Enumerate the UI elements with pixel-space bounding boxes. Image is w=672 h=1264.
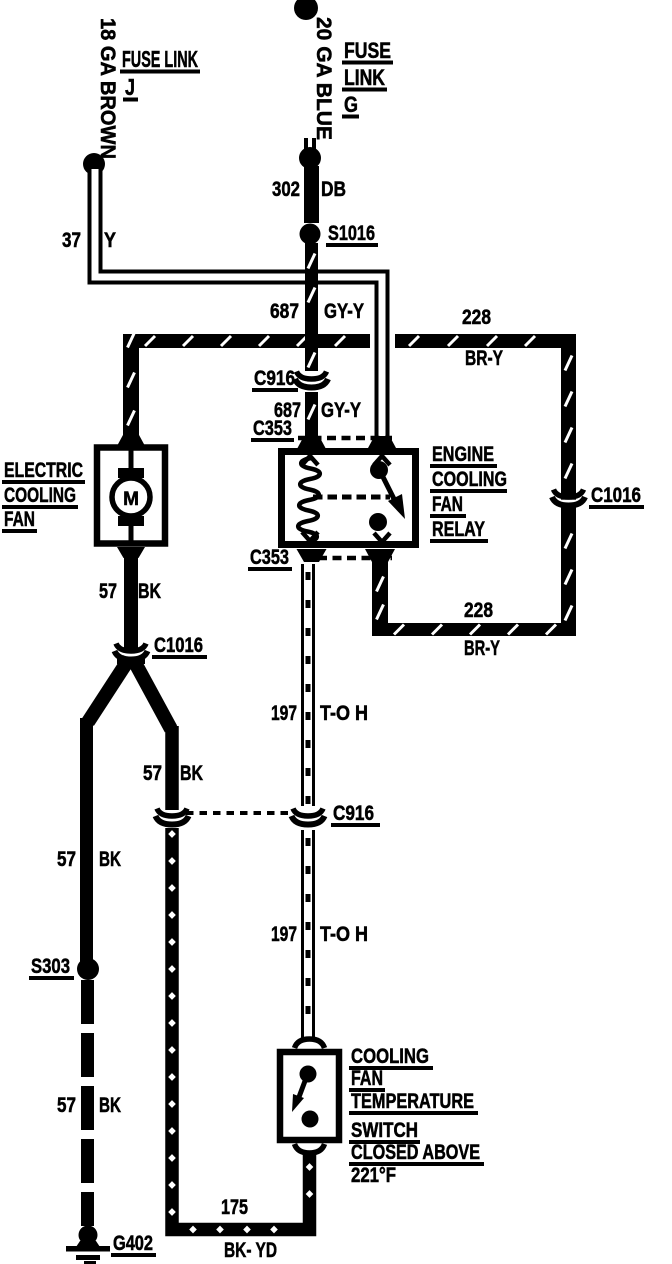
- svg-text:197: 197: [271, 702, 297, 725]
- relay switch contact (bottom): [369, 513, 387, 531]
- pin flare relay top-right (37-Y feed): [368, 436, 396, 448]
- svg-text:FUSE LINK: FUSE LINK: [122, 46, 198, 72]
- svg-text:FAN: FAN: [351, 1067, 383, 1090]
- svg-text:57: 57: [57, 1094, 76, 1117]
- svg-text:197: 197: [271, 923, 297, 946]
- svg-text:FAN: FAN: [432, 493, 463, 516]
- svg-text:COOLING: COOLING: [351, 1045, 429, 1068]
- splice dashed line C916 to 57 BK branch: [186, 811, 294, 815]
- relay pin arrow bottom-right: [374, 533, 390, 542]
- node dot between fuse link G and wire 302: [299, 147, 321, 169]
- svg-text:20 GA BLUE: 20 GA BLUE: [312, 17, 335, 140]
- svg-text:C1016: C1016: [591, 484, 641, 507]
- svg-text:T-O H: T-O H: [320, 923, 368, 946]
- svg-text:BR-Y: BR-Y: [464, 637, 500, 660]
- svg-text:M: M: [123, 489, 139, 510]
- svg-text:Y: Y: [104, 229, 116, 252]
- relay switch blade with arrow: [383, 477, 396, 503]
- svg-text:18 GA BROWN: 18 GA BROWN: [96, 18, 119, 159]
- svg-text:RELAY: RELAY: [432, 518, 485, 541]
- svg-text:S1016: S1016: [328, 222, 375, 245]
- wire 37 Y crossover over bus: [370, 331, 395, 351]
- svg-text:BK: BK: [99, 848, 121, 871]
- svg-text:COOLING: COOLING: [4, 484, 76, 507]
- svg-text:C916: C916: [333, 802, 374, 825]
- svg-text:57: 57: [143, 762, 162, 785]
- wire splice Y-split below C1016: [117, 657, 145, 664]
- svg-text:302: 302: [272, 178, 300, 201]
- pin flare below motor box: [117, 547, 145, 558]
- svg-text:BK: BK: [99, 1094, 121, 1117]
- svg-text:228: 228: [462, 306, 491, 329]
- svg-text:C353: C353: [250, 546, 289, 569]
- pin flare relay top-left (687 coil feed): [298, 436, 326, 448]
- svg-text:T-O H: T-O H: [320, 702, 368, 725]
- svg-text:C1016: C1016: [154, 634, 203, 657]
- svg-text:ENGINE: ENGINE: [432, 443, 494, 466]
- svg-text:221°F: 221°F: [351, 1164, 396, 1187]
- wire 57 BK left branch (to S303): [80, 718, 93, 962]
- engine cooling fan relay box: [282, 452, 416, 545]
- electric cooling fan motor box: [97, 448, 165, 544]
- svg-text:FAN: FAN: [4, 508, 35, 531]
- splice S303: [77, 958, 99, 980]
- connector C916 (lower, on 197): [300, 819, 317, 822]
- hatch marks on 228 BR-Y bus: [145, 336, 155, 346]
- connector C1016 (right, on 228 BR-Y): [560, 500, 577, 503]
- svg-text:37: 37: [62, 229, 81, 252]
- svg-text:J: J: [125, 74, 135, 100]
- connector C916 (upper, on 687 GY-Y): [303, 382, 320, 385]
- svg-text:TEMPERATURE: TEMPERATURE: [351, 1090, 474, 1113]
- wire 302 DB (thick bar): [304, 166, 319, 223]
- fuse link J terminal dot (top of 18 GA BROWN lead): [93, 10, 95, 12]
- svg-text:687: 687: [270, 300, 299, 323]
- svg-text:BK- YD: BK- YD: [224, 1239, 277, 1262]
- relay pin flare bottom-right: [365, 549, 395, 562]
- cooling fan temperature switch box: [280, 1052, 339, 1140]
- svg-text:GY-Y: GY-Y: [321, 399, 361, 422]
- wire 57 BK dashed (S303 to G402): [81, 980, 94, 1226]
- svg-text:LINK: LINK: [344, 65, 385, 90]
- svg-text:BR-Y: BR-Y: [465, 347, 503, 370]
- svg-text:ELECTRIC: ELECTRIC: [4, 459, 83, 482]
- temp switch contact (top): [300, 1066, 317, 1083]
- ground G402: [79, 1226, 98, 1245]
- relay internal dashed link: [313, 495, 390, 500]
- splice S1016: [300, 224, 321, 245]
- svg-text:BK: BK: [138, 580, 161, 603]
- temp switch top connector cup: [295, 1039, 325, 1048]
- svg-text:C916: C916: [254, 367, 295, 390]
- connector C353 dashed line (bottom): [318, 556, 392, 561]
- relay switch contact (top): [370, 461, 388, 479]
- svg-text:FUSE: FUSE: [344, 38, 391, 63]
- svg-text:DB: DB: [321, 178, 346, 201]
- wire 228 BR-Y bus: [123, 334, 570, 348]
- svg-text:S303: S303: [31, 955, 70, 978]
- fuse link G terminal dot (top): [294, 0, 318, 20]
- svg-text:CLOSED ABOVE: CLOSED ABOVE: [351, 1141, 480, 1164]
- motor M symbol: [129, 450, 134, 472]
- svg-text:GY-Y: GY-Y: [324, 300, 364, 323]
- wire 175 BK-YD (C916 down, across, up to temp switch): [172, 828, 310, 1230]
- svg-text:175: 175: [221, 1196, 248, 1219]
- svg-text:G402: G402: [113, 1232, 153, 1255]
- temp switch contact (bottom): [302, 1111, 319, 1128]
- white break in 228 bus at 37-Y crossover: [370, 331, 396, 351]
- svg-text:SWITCH: SWITCH: [351, 1119, 418, 1142]
- connector on right branch (C916 mate): [164, 819, 181, 822]
- connector C1016 (left, below motor): [123, 654, 140, 657]
- connector C353 dashed line (top): [298, 436, 392, 441]
- svg-text:C353: C353: [253, 417, 292, 440]
- wire 197 T-O H (C916 to temp switch): [301, 830, 304, 1040]
- relay coil (left, with arrows): [302, 456, 318, 465]
- temp switch blade with arrow: [299, 1081, 305, 1097]
- wire 197 T-O H (relay to C916): [301, 564, 304, 806]
- svg-text:57: 57: [99, 580, 117, 603]
- pin flare into motor box (from 228 bus): [117, 434, 145, 446]
- wire 57 BK (motor to C1016): [124, 557, 138, 650]
- svg-text:COOLING: COOLING: [432, 468, 507, 491]
- wire 687 GY-Y (S1016 down to C916): [305, 243, 318, 371]
- wire 687 GY-Y (C916 down to relay): [305, 392, 318, 436]
- relay pin arrow top-right: [374, 456, 390, 465]
- svg-text:228: 228: [464, 599, 493, 622]
- temp switch bottom connector cup: [295, 1144, 325, 1153]
- wire stub above dot (20 GA BLUE): [304, 138, 316, 156]
- wire 57 BK right branch (to C916 splice): [165, 726, 179, 810]
- svg-text:57: 57: [57, 848, 76, 871]
- wire 37 Y (double-line from fuse link J to relay): [95, 169, 382, 438]
- relay pin flare bottom-left: [297, 549, 327, 562]
- svg-text:BK: BK: [180, 762, 203, 785]
- svg-text:G: G: [344, 92, 358, 117]
